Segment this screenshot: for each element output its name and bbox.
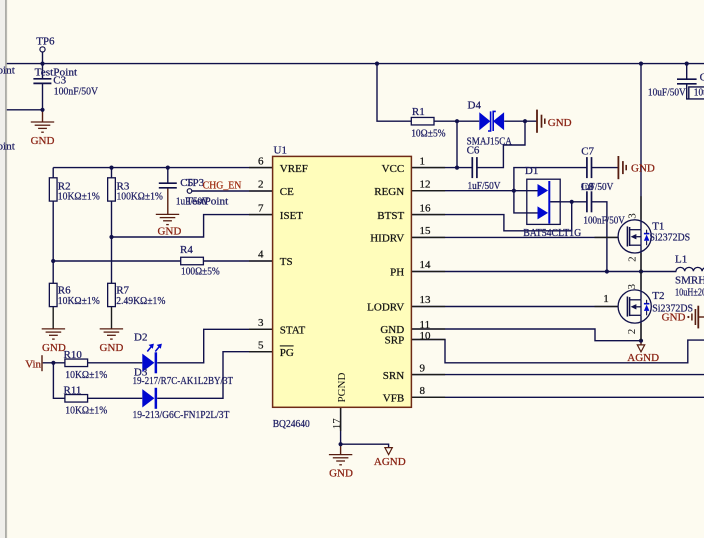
svg-text:LODRV: LODRV [367, 302, 404, 314]
svg-text:GND: GND [548, 117, 572, 129]
svg-text:R10: R10 [64, 349, 83, 361]
svg-text:PH: PH [390, 267, 404, 279]
svg-text:1uF/50V: 1uF/50V [468, 180, 501, 192]
svg-text:AGND: AGND [627, 352, 659, 364]
svg-text:1: 1 [603, 293, 609, 305]
svg-text:L1: L1 [675, 254, 687, 266]
svg-text:REGN: REGN [374, 186, 404, 198]
svg-text:100Ω±5%: 100Ω±5% [181, 266, 220, 278]
svg-text:VFB: VFB [383, 393, 404, 405]
svg-text:SMRH04: SMRH04 [675, 274, 704, 286]
svg-text:16: 16 [420, 202, 432, 214]
svg-text:GND: GND [157, 225, 181, 237]
svg-text:14: 14 [420, 259, 432, 271]
svg-text:C6: C6 [467, 145, 480, 157]
svg-text:D1: D1 [525, 165, 538, 177]
svg-text:CHG_EN: CHG_EN [203, 179, 242, 191]
svg-text:C9: C9 [700, 72, 704, 84]
svg-text:BTST: BTST [377, 210, 404, 222]
svg-text:R1: R1 [412, 106, 425, 118]
svg-text:Si2372DS: Si2372DS [650, 231, 691, 243]
svg-text:GND: GND [329, 467, 353, 479]
svg-text:2.49KΩ±1%: 2.49KΩ±1% [116, 295, 165, 307]
svg-text:CE: CE [280, 186, 294, 198]
svg-text:PGND: PGND [336, 372, 348, 402]
svg-text:C8: C8 [581, 181, 594, 193]
svg-text:10uH±20%: 10uH±20% [675, 287, 704, 299]
svg-text:PG: PG [280, 347, 294, 359]
svg-text:GND: GND [42, 342, 66, 354]
svg-text:10KΩ±1%: 10KΩ±1% [58, 191, 100, 203]
svg-text:100KΩ±1%: 100KΩ±1% [117, 191, 163, 203]
svg-text:TS: TS [280, 256, 293, 268]
svg-text:D2: D2 [134, 332, 147, 344]
svg-text:R11: R11 [64, 385, 82, 397]
svg-text:9: 9 [420, 362, 426, 374]
svg-text:R4: R4 [180, 244, 193, 256]
svg-text:VCC: VCC [382, 163, 405, 175]
svg-text:10KΩ±1%: 10KΩ±1% [65, 369, 107, 381]
svg-text:100nF/50V: 100nF/50V [583, 214, 625, 226]
svg-text:GND: GND [631, 162, 655, 174]
svg-text:12: 12 [420, 178, 431, 190]
svg-text:U1: U1 [274, 144, 287, 156]
svg-text:C7: C7 [581, 145, 594, 157]
svg-text:TP6: TP6 [36, 35, 55, 47]
svg-text:ISET: ISET [280, 210, 304, 222]
svg-text:8: 8 [420, 385, 426, 397]
svg-text:SRP: SRP [385, 335, 405, 347]
svg-text:AGND: AGND [374, 456, 406, 468]
svg-text:13: 13 [420, 294, 432, 306]
svg-text:10KΩ±1%: 10KΩ±1% [65, 404, 107, 416]
svg-text:SRN: SRN [383, 370, 404, 382]
svg-text:D4: D4 [468, 100, 482, 112]
svg-text:10KΩ±1%: 10KΩ±1% [58, 295, 100, 307]
svg-text:15: 15 [420, 225, 432, 237]
svg-text:Vin: Vin [25, 358, 41, 370]
svg-text:3: 3 [626, 213, 638, 219]
svg-text:7: 7 [258, 202, 264, 214]
svg-text:GND: GND [31, 135, 55, 147]
svg-text:17: 17 [331, 418, 343, 430]
svg-text:2: 2 [258, 179, 264, 191]
svg-text:BAT54CLT1G: BAT54CLT1G [523, 227, 581, 239]
svg-text:3: 3 [626, 284, 638, 290]
svg-text:11: 11 [420, 319, 431, 331]
svg-text:STAT: STAT [280, 325, 306, 337]
svg-text:10uF/50V: 10uF/50V [694, 87, 704, 99]
svg-text:4: 4 [258, 249, 264, 261]
svg-text:2: 2 [626, 329, 638, 335]
svg-text:10Ω±5%: 10Ω±5% [411, 128, 445, 140]
svg-text:6: 6 [258, 155, 264, 167]
svg-text:1: 1 [420, 155, 426, 167]
svg-text:19-213/G6C-FN1P2L/3T: 19-213/G6C-FN1P2L/3T [133, 409, 230, 421]
svg-text:3: 3 [258, 317, 264, 329]
svg-text:BQ24640: BQ24640 [273, 418, 311, 430]
svg-text:TestPoint: TestPoint [0, 141, 15, 153]
svg-text:HIDRV: HIDRV [370, 233, 404, 245]
svg-text:100nF/50V: 100nF/50V [54, 85, 98, 97]
svg-text:19-217/R7C-AK1L2BY/3T: 19-217/R7C-AK1L2BY/3T [133, 375, 234, 387]
svg-text:10: 10 [420, 330, 432, 342]
svg-text:2: 2 [626, 256, 638, 262]
svg-text:TestPoint: TestPoint [0, 64, 15, 76]
svg-text:5: 5 [258, 339, 264, 351]
svg-text:VREF: VREF [280, 163, 308, 175]
svg-text:GND: GND [662, 311, 686, 323]
svg-text:GND: GND [99, 342, 123, 354]
svg-text:TestPoint: TestPoint [186, 196, 228, 208]
svg-text:T2: T2 [652, 290, 664, 302]
svg-text:10uF/50V: 10uF/50V [648, 87, 686, 99]
